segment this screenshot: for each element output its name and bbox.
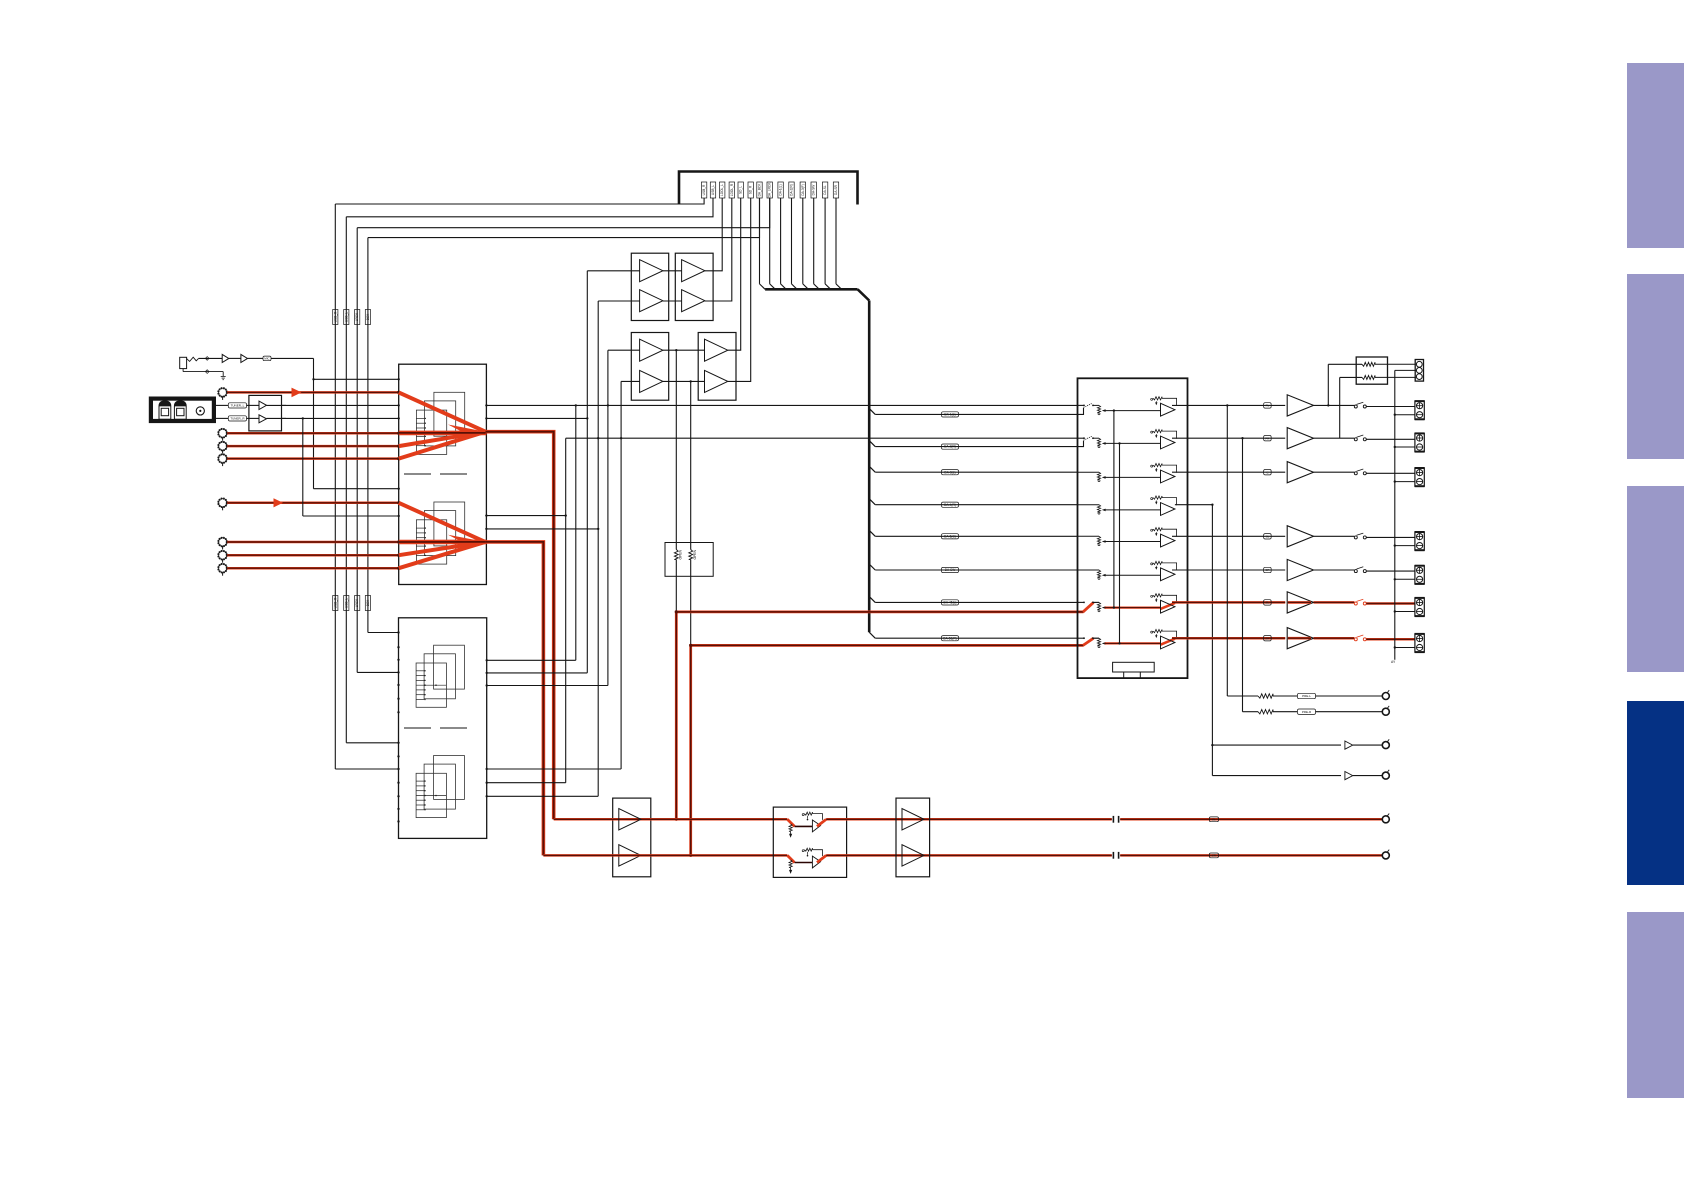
svg-text:ZL: ZL: [1212, 817, 1216, 821]
wire left bus1 to DSP: [368, 632, 399, 634]
svg-text:BCK: BCK: [366, 313, 370, 320]
usb connector icon 1: [159, 401, 171, 419]
wire DSP out to v5: [486, 684, 608, 686]
phones resistor box: [1356, 357, 1387, 384]
red wire zone row1 through amps: [554, 818, 788, 821]
open-resistor box: [665, 543, 713, 577]
wire channel2 output: [1172, 437, 1285, 439]
left bus vertical 4: [367, 238, 369, 633]
signal flag DA-1(L): [942, 412, 959, 417]
wire DSP out to v2: [486, 659, 576, 661]
wire jack C ground: [1394, 480, 1415, 482]
buffer U302 amp a: [682, 260, 705, 282]
left bus flag LRCK upper: [355, 310, 360, 325]
red wire zone R feed: [689, 644, 1083, 857]
main IC channel 8 input network: [1078, 630, 1177, 649]
header pin flag DA-SR: [833, 182, 838, 198]
vertical net v1: [565, 438, 567, 783]
wire amp to mute switch FL: [1314, 404, 1355, 406]
wire v4 to U301b: [598, 300, 639, 302]
wire jack FR ground: [1394, 446, 1415, 448]
wire PRE-R to jack: [1316, 711, 1383, 713]
input jack J208: [218, 564, 227, 576]
header pin flag USB_L: [710, 182, 715, 198]
svg-text:LDOL_R: LDOL_R: [730, 183, 734, 196]
signal flag DA-4(R): [942, 502, 959, 507]
capacitor C601: [1113, 816, 1118, 823]
wire switch to jack C: [1366, 472, 1415, 474]
wire switch to jack ZR: [1366, 638, 1415, 641]
wire phones mid to ground bus: [1395, 369, 1417, 371]
red wire zone L feed: [675, 610, 1084, 821]
red wire zone row1 after volume: [826, 818, 1112, 821]
svg-text:USB_L: USB_L: [344, 598, 348, 608]
output jack SR: [1415, 566, 1425, 584]
wire v3 to U301a: [587, 270, 639, 272]
output jack ZR: [1415, 634, 1425, 652]
wire channel3 output: [1172, 471, 1285, 473]
signal flag MIC: [263, 356, 271, 361]
mic jack J101: [180, 357, 187, 368]
wire mixer out L to main IC row1: [485, 404, 1077, 406]
svg-text:USB_R: USB_R: [333, 597, 337, 608]
left bus vertical 3: [356, 228, 358, 673]
svg-text:TUNER_L: TUNER_L: [231, 404, 245, 408]
svg-text:BCK: BCK: [366, 599, 370, 606]
resistor R582: [1258, 710, 1273, 714]
wire U303a branch down through open box: [675, 350, 677, 612]
wire MIC to mixer: [271, 358, 400, 490]
wire channel6 output: [1172, 569, 1285, 571]
wire header pin3 to buffer U301 out: [705, 198, 722, 271]
mic switch: [187, 357, 199, 361]
svg-text:OPEN: OPEN: [679, 549, 683, 559]
wire mixer2 out R: [485, 528, 599, 530]
svg-text:ZL: ZL: [1266, 601, 1270, 605]
red wire jack2 to mixer1: [227, 432, 400, 435]
wire channel1 to phones divider: [1328, 364, 1362, 405]
DSP left pins lower: [397, 742, 399, 823]
mute switch ZL: [1354, 599, 1366, 605]
wire jack SR ground: [1394, 578, 1415, 580]
signal flag TUNER_R: [228, 416, 246, 421]
wire header pin4 to buffer U301 out: [705, 198, 732, 301]
svg-text:DA-SW: DA-SW: [945, 568, 956, 572]
zone out amp L: [902, 809, 924, 830]
wire left bus4 to DSP: [335, 768, 398, 770]
left bus flag USB_L lower: [344, 596, 349, 611]
signal flag DA-45(L): [942, 600, 959, 605]
mixer2 red fan-in: [399, 503, 487, 568]
tuner buffer amp L: [247, 401, 287, 409]
output amp ZL: [1287, 592, 1313, 613]
DSP DAC symbol upper: [416, 645, 464, 707]
bus vertical: [868, 301, 871, 633]
signal flag SL: [1264, 534, 1272, 539]
signal flag PRE-R: [1298, 709, 1316, 714]
wire amp to mute switch ZR: [1314, 637, 1355, 640]
output amp C: [1287, 462, 1313, 483]
wire jack ZR ground: [1394, 646, 1415, 648]
mic amp stage 1: [222, 354, 229, 362]
buffer U301 amp a: [640, 260, 663, 282]
header pin flag DA-SW: [811, 182, 816, 198]
signal flag DA-5(C): [942, 534, 959, 539]
wire aux row 2: [1212, 775, 1341, 777]
red wire jack7 to mixer2: [227, 554, 400, 557]
wire left bus2 to DSP: [357, 671, 398, 673]
mixer2 DAC symbol: [416, 502, 464, 564]
mute switch C: [1354, 469, 1366, 475]
aux buffer 1: [1345, 741, 1353, 749]
wire aux buffer2 to jack: [1353, 775, 1382, 777]
signal flag C: [1264, 470, 1272, 475]
wire amp to mute switch ZL: [1314, 601, 1355, 604]
sidebar tab 5: [1627, 912, 1684, 1098]
mute switch FL: [1354, 402, 1366, 408]
main IC inner vertical b: [1118, 442, 1120, 644]
signal flag PRE-L: [1298, 693, 1316, 698]
wire header pin5 to buffer U302 out: [728, 198, 741, 350]
svg-text:LRCK: LRCK: [355, 312, 359, 321]
output jack SL: [1415, 532, 1425, 550]
bus branch DA-2(R): [869, 441, 1077, 447]
svg-text:DA-SL: DA-SL: [823, 185, 827, 195]
bus merge diagonals: [760, 198, 842, 289]
wire: [248, 357, 264, 359]
svg-text:DA-45(L): DA-45(L): [944, 601, 957, 605]
net USB_L wire (header pin2 to left bus): [346, 198, 713, 217]
main volume IC box U501: [1078, 378, 1188, 678]
wire TUNER_R to mixers: [282, 417, 400, 517]
electronic volume IC box U201: [399, 364, 487, 584]
bus corner diagonal: [858, 289, 870, 300]
usb connector icon 2: [174, 401, 186, 419]
DSP DAC symbol lower: [416, 756, 464, 818]
red wire zone row2 through amps: [543, 854, 787, 857]
mute switch FR: [1354, 435, 1366, 441]
wire jack ZL ground: [1394, 610, 1415, 612]
main IC channel 4 input network: [1078, 496, 1177, 515]
header pin flag LDOL_R: [729, 182, 734, 198]
main IC channel 6 input network: [1078, 561, 1177, 580]
buffer U304 amp b: [705, 370, 728, 392]
resistor R571: [1362, 362, 1416, 366]
header pin flag USB_R: [701, 182, 706, 198]
capacitor C602: [1113, 852, 1118, 859]
wire channel8 output: [1172, 637, 1285, 640]
wire switch to jack ZL: [1366, 602, 1415, 605]
bus branch DA-56(R): [869, 632, 1077, 638]
wire channel7 output: [1172, 601, 1285, 604]
svg-text:LDOL_L: LDOL_L: [720, 184, 724, 196]
output jack ZL: [1415, 598, 1425, 616]
wire jack SL ground: [1394, 544, 1415, 546]
svg-text:PRE-L: PRE-L: [1302, 694, 1311, 698]
input jack J203: [218, 442, 227, 454]
audio DSP box U401: [399, 618, 487, 839]
main IC channel 2 input network: [1078, 430, 1177, 449]
left bus vertical 2: [345, 217, 347, 743]
left bus flag BCK lower: [365, 596, 370, 611]
wire: [229, 357, 241, 359]
bus branch DA-SW: [869, 564, 1077, 570]
wire amp to mute switch C: [1314, 471, 1355, 473]
wire channel2 branch to pre-out: [1243, 438, 1259, 712]
sidebar tab 4 (active): [1627, 701, 1684, 885]
tuner buffer box: [249, 395, 282, 431]
signal flag ZR: [1209, 853, 1218, 858]
zone jack R: [1382, 850, 1389, 859]
wire mixer out R: [485, 417, 587, 419]
svg-text:USB_L: USB_L: [344, 312, 348, 322]
input jack J204: [218, 454, 227, 466]
wire aux buffer1 to jack: [1353, 744, 1382, 746]
buffer box U302 upper: [675, 253, 713, 320]
main IC channel 1 input network: [1078, 397, 1177, 416]
wire to PRE-L flag: [1273, 695, 1297, 697]
wire U301a to U302a: [663, 270, 682, 272]
output amp ZR: [1287, 628, 1313, 649]
header pin flag DA-2(R): [789, 182, 794, 198]
vertical net v3: [586, 271, 588, 673]
header pin flag DA-1(L): [778, 182, 783, 198]
mute switch SL: [1354, 533, 1366, 539]
svg-text:DA-3(F): DA-3(F): [801, 184, 805, 195]
zone volume pot R: [787, 848, 826, 874]
svg-text:DA-3(L): DA-3(L): [944, 470, 955, 474]
wire U301b to U302b: [663, 300, 682, 302]
output amp SR: [1287, 559, 1313, 580]
wire channel4 output down: [1175, 504, 1214, 776]
wire PRE-L to jack: [1316, 695, 1383, 697]
signal flag TUNER_L: [228, 403, 246, 408]
aux jack 2: [1382, 770, 1389, 779]
wire channel2 to phones divider: [1340, 377, 1362, 438]
buffer box U303 lower: [631, 333, 668, 401]
left bus flag USB_R upper: [333, 310, 338, 325]
output amp FR: [1287, 428, 1313, 449]
net DA_LRCK wire (header pin8 to left bus): [357, 198, 770, 228]
red wire jack6 to mixer2: [227, 540, 400, 543]
buffer U304 amp a: [705, 339, 728, 361]
wire to PRE-R flag: [1273, 711, 1297, 713]
wire DSP in from v4: [486, 795, 599, 797]
main IC channel 7 input network: [1078, 594, 1177, 613]
svg-text:PRE-R: PRE-R: [1302, 710, 1312, 714]
svg-text:LRCK: LRCK: [355, 598, 359, 607]
main IC control block: [1113, 662, 1155, 678]
resistor R572: [1362, 375, 1416, 379]
wire usb to TUNER_R flag: [214, 417, 228, 419]
wire channel1 output: [1172, 404, 1330, 406]
net USB_R wire (header pin1 to left bus): [335, 198, 704, 204]
svg-text:SD_L: SD_L: [739, 186, 743, 194]
bus branch DA-3(L): [869, 466, 1077, 472]
mic amp stage 2: [241, 354, 248, 362]
svg-text:DA_BCK: DA_BCK: [758, 183, 762, 197]
svg-text:DA_LRCK: DA_LRCK: [768, 182, 772, 198]
phones jack: [1415, 360, 1423, 382]
wire DSP out to v3: [486, 672, 588, 674]
mute switch SR: [1354, 567, 1366, 573]
signal flag DA-SW: [942, 567, 959, 572]
input jack J201: [218, 388, 227, 400]
svg-text:DA-1(L): DA-1(L): [944, 413, 955, 417]
svg-text:DA-2(R): DA-2(R): [790, 184, 794, 196]
red wire jack1 to mixer1: [227, 388, 400, 398]
vertical net v6: [620, 381, 622, 769]
buffer U303 amp b: [640, 370, 663, 392]
wire mixer2 out L: [485, 514, 567, 516]
svg-text:USB_L: USB_L: [711, 185, 715, 195]
sidebar tab 2: [1627, 274, 1684, 459]
sidebar tab 3: [1627, 486, 1684, 672]
red wire jack3 to mixer1: [227, 445, 400, 448]
zone amp R: [619, 845, 641, 866]
zone out amp R: [902, 845, 924, 866]
buffer box U304 lower: [698, 333, 736, 401]
zone volume box: [773, 807, 846, 877]
zone jack L: [1382, 814, 1389, 823]
output amp FL: [1287, 395, 1313, 416]
wire U303b to U304b: [663, 380, 705, 382]
signal flag ZL: [1264, 600, 1272, 605]
wire usb to TUNER_L flag: [214, 404, 228, 406]
bus branch DA-4(R): [869, 499, 1077, 505]
left bus vertical 1: [334, 204, 336, 769]
wire channel1 branch to pre-out: [1227, 405, 1258, 696]
signal flag ZR: [1264, 636, 1272, 641]
svg-text:SL: SL: [1266, 534, 1270, 538]
red wire mixer2 output to zone row2: [485, 542, 543, 856]
wire switch to jack FR: [1366, 438, 1415, 440]
aux buffer 2: [1345, 772, 1353, 780]
resistor R352 OPEN: [689, 549, 697, 559]
main IC channel 3 input network: [1078, 464, 1177, 483]
svg-text:DA-56(R): DA-56(R): [943, 636, 956, 640]
wire jack FL ground: [1394, 414, 1415, 416]
red wire jack8 to mixer2: [227, 567, 400, 570]
header pin flag SD_L: [738, 182, 743, 198]
net DA_BCK wire (header pin7 to left bus): [368, 198, 760, 238]
bus branch DA-5(C): [869, 530, 1077, 536]
vertical net v4: [597, 301, 599, 796]
header pin flag SD_R: [748, 182, 753, 198]
bus line horizontal: [765, 288, 858, 291]
resistor R581: [1258, 694, 1273, 698]
ground bus vertical right: [1391, 370, 1396, 664]
header pin flag DA_BCK: [757, 182, 762, 198]
input jack J206: [218, 538, 227, 550]
svg-text:DA-2(R): DA-2(R): [944, 445, 956, 449]
buffer box U301: [631, 253, 668, 320]
pre-out jack L: [1382, 690, 1389, 699]
resistor R351 OPEN: [674, 549, 682, 559]
svg-text:DA-4(R): DA-4(R): [944, 503, 956, 507]
signal flag FR: [1264, 436, 1272, 441]
header pin flag DA-3(F): [800, 182, 805, 198]
input jack J202: [218, 429, 227, 441]
signal flag FL: [1264, 403, 1272, 408]
wire mic to amp: [199, 357, 223, 361]
svg-text:DA-5(C): DA-5(C): [944, 534, 956, 538]
vertical net v5: [607, 350, 609, 685]
bus branch DA-45(L): [869, 596, 1077, 602]
red wire jack4 to mixer1: [227, 457, 400, 460]
wire amp to mute switch FR: [1314, 437, 1355, 439]
wire DSP in from v1: [486, 782, 566, 784]
pre-out jack R: [1382, 706, 1389, 715]
svg-text:DA-1(L): DA-1(L): [779, 184, 783, 195]
red wire zone row2 after volume: [826, 854, 1112, 857]
svg-text:FL: FL: [1266, 404, 1270, 408]
wire switch to jack FL: [1366, 406, 1415, 408]
output jack FL: [1415, 401, 1425, 419]
left bus flag LRCK lower: [355, 596, 360, 611]
output jack C: [1415, 468, 1425, 486]
aux jack 1: [1382, 739, 1389, 748]
wire U303b branch down through open box: [690, 381, 692, 645]
wire amp to mute switch SR: [1314, 569, 1355, 571]
svg-text:TUNER_R: TUNER_R: [230, 417, 245, 421]
bus branch DA-1(L): [869, 408, 1077, 414]
wire to main IC row2: [566, 437, 1078, 439]
wire DSP in from v6: [486, 768, 622, 770]
main IC inner vertical a: [1113, 409, 1115, 608]
svg-text:SD_R: SD_R: [749, 185, 753, 194]
wire amp to mute switch SL: [1314, 535, 1355, 537]
left bus flag USB_R lower: [333, 596, 338, 611]
red wire zone row2 to jack: [1120, 854, 1382, 857]
left bus flag USB_L upper: [344, 310, 349, 325]
zone amp box 2: [896, 798, 930, 877]
vertical net v2: [575, 405, 577, 660]
header pin flag DA_LRCK: [767, 182, 772, 198]
wire TUNER_L to mixer1: [282, 404, 400, 406]
input jack J207: [218, 551, 227, 563]
svg-text:AY: AY: [1391, 660, 1396, 664]
signal flag DA-3(L): [942, 470, 959, 475]
header pin flag DA-SL: [822, 182, 827, 198]
input jack J205: [218, 499, 227, 511]
wire header pin6 to buffer U302 out: [728, 198, 751, 381]
svg-text:DA-SW: DA-SW: [812, 185, 816, 196]
left bus flag BCK upper: [365, 310, 370, 325]
wire switch to jack SR: [1366, 570, 1415, 572]
zone amp L: [619, 809, 641, 830]
red wire zone row1 to jack: [1120, 818, 1382, 821]
tuner buffer amp R: [247, 415, 287, 423]
signal flag SR: [1264, 567, 1272, 572]
mixer1 red fan-in: [399, 392, 487, 458]
dc jack icon: [196, 407, 204, 415]
DSP left pins upper: [397, 631, 399, 713]
svg-text:OPEN: OPEN: [693, 549, 697, 559]
wire aux row 1: [1212, 744, 1341, 746]
mixer1 DAC symbol: [416, 392, 464, 454]
svg-text:DA-SR: DA-SR: [834, 184, 838, 195]
zone amp box 1: [613, 798, 651, 877]
signal flag DA-56(R): [942, 636, 959, 641]
mic jack sleeve wire: [183, 369, 223, 377]
sidebar tab 1: [1627, 63, 1684, 248]
output amp SL: [1287, 526, 1313, 547]
output jack FR: [1415, 433, 1425, 451]
wire U303a to U304a: [663, 349, 705, 351]
svg-text:MIC: MIC: [264, 357, 269, 361]
svg-text:USB_R: USB_R: [333, 311, 337, 322]
